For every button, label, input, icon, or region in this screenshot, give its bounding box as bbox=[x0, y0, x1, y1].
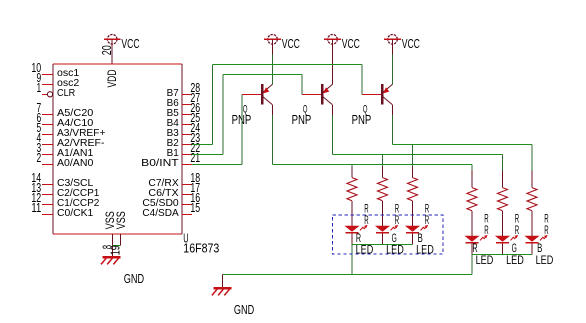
svg-text:LED: LED bbox=[476, 255, 494, 267]
svg-text:LED: LED bbox=[506, 255, 524, 267]
svg-text:R: R bbox=[544, 214, 548, 226]
svg-text:15: 15 bbox=[190, 201, 200, 215]
svg-text:A0/AN0: A0/AN0 bbox=[57, 157, 93, 169]
svg-text:R: R bbox=[484, 225, 488, 237]
svg-text:PNP: PNP bbox=[292, 113, 312, 127]
svg-text:G: G bbox=[512, 243, 517, 255]
svg-text:1: 1 bbox=[37, 81, 42, 95]
svg-text:VDD: VDD bbox=[107, 70, 119, 88]
svg-text:G: G bbox=[392, 233, 397, 245]
svg-text:LED: LED bbox=[386, 244, 404, 256]
svg-text:PNP: PNP bbox=[232, 113, 252, 127]
svg-text:R: R bbox=[364, 204, 368, 216]
svg-text:R: R bbox=[472, 243, 477, 255]
svg-text:B0/INT: B0/INT bbox=[141, 157, 179, 169]
svg-text:19: 19 bbox=[109, 245, 123, 255]
svg-text:VCC: VCC bbox=[121, 37, 139, 51]
svg-text:R: R bbox=[515, 225, 519, 237]
svg-text:LED: LED bbox=[536, 255, 554, 267]
svg-text:C4/SDA: C4/SDA bbox=[142, 207, 178, 219]
svg-text:20: 20 bbox=[100, 45, 114, 55]
svg-text:R: R bbox=[356, 233, 361, 245]
svg-text:B: B bbox=[537, 243, 542, 255]
svg-text:B: B bbox=[418, 233, 423, 245]
svg-text:CLR: CLR bbox=[57, 87, 76, 99]
svg-text:16F873: 16F873 bbox=[183, 242, 219, 256]
svg-text:VSS: VSS bbox=[105, 211, 117, 229]
svg-text:21: 21 bbox=[190, 151, 200, 165]
svg-text:R: R bbox=[364, 215, 368, 227]
svg-text:VCC: VCC bbox=[402, 37, 420, 51]
svg-text:R: R bbox=[515, 214, 519, 226]
svg-text:LED: LED bbox=[416, 244, 434, 256]
svg-text:C0/CK1: C0/CK1 bbox=[57, 207, 93, 219]
svg-text:GND: GND bbox=[124, 272, 144, 286]
svg-text:VCC: VCC bbox=[342, 37, 360, 51]
svg-text:R: R bbox=[425, 215, 429, 227]
svg-text:R: R bbox=[425, 204, 429, 216]
svg-text:VSS: VSS bbox=[116, 211, 128, 229]
svg-text:11: 11 bbox=[31, 201, 41, 215]
svg-text:R: R bbox=[544, 225, 548, 237]
svg-text:VCC: VCC bbox=[282, 37, 300, 51]
svg-text:GND: GND bbox=[234, 303, 254, 317]
svg-text:R: R bbox=[484, 214, 488, 226]
svg-text:R: R bbox=[395, 215, 399, 227]
svg-text:2: 2 bbox=[37, 151, 42, 165]
svg-text:R: R bbox=[395, 204, 399, 216]
svg-text:PNP: PNP bbox=[352, 113, 372, 127]
